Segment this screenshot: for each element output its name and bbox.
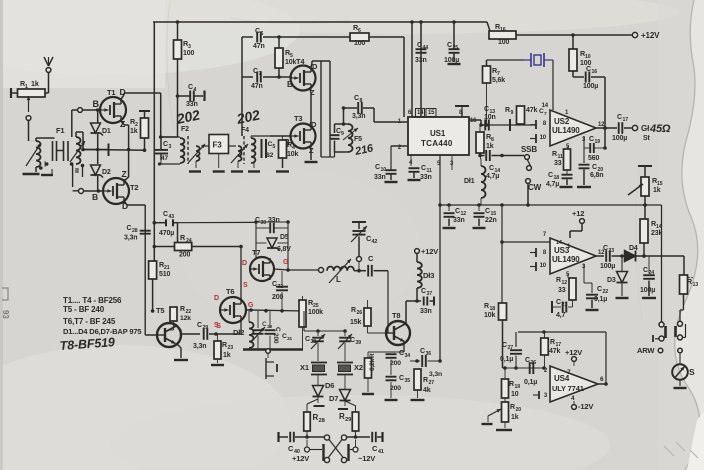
svg-text:F5: F5 <box>354 136 362 143</box>
svg-text:R: R <box>423 377 428 384</box>
svg-text:9: 9 <box>341 131 344 137</box>
svg-text:C: C <box>617 114 622 121</box>
svg-text:C: C <box>556 299 561 306</box>
svg-text:10: 10 <box>511 391 519 398</box>
svg-text:D1: D1 <box>102 128 111 135</box>
svg-text:28: 28 <box>132 228 138 234</box>
svg-text:B: B <box>93 99 100 109</box>
svg-text:T6,T7 - BF 245: T6,T7 - BF 245 <box>63 317 116 326</box>
svg-text:US1: US1 <box>430 129 446 138</box>
svg-text:5: 5 <box>273 144 276 150</box>
svg-text:100: 100 <box>498 39 509 46</box>
svg-text:30: 30 <box>261 220 267 226</box>
svg-text:C: C <box>447 42 452 49</box>
svg-text:33n: 33n <box>420 308 432 315</box>
svg-text:R: R <box>484 303 489 310</box>
svg-text:3,3n: 3,3n <box>429 371 442 378</box>
svg-text:9: 9 <box>511 110 514 116</box>
svg-text:1k: 1k <box>511 414 519 421</box>
svg-text:3,3n: 3,3n <box>124 235 137 242</box>
svg-text:L: L <box>336 275 341 284</box>
svg-text:I: I <box>51 167 53 176</box>
svg-text:12: 12 <box>562 280 568 286</box>
svg-text:5,6k: 5,6k <box>492 77 505 84</box>
svg-text:6: 6 <box>600 376 604 383</box>
svg-text:F1: F1 <box>56 126 64 135</box>
svg-text:~12V: ~12V <box>358 454 375 463</box>
svg-text:10: 10 <box>381 167 387 173</box>
svg-text:+12V: +12V <box>565 348 582 357</box>
svg-text:100µ: 100µ <box>612 135 627 142</box>
svg-text:R: R <box>222 342 227 349</box>
svg-text:33n: 33n <box>268 217 280 224</box>
svg-text:B: B <box>92 192 98 202</box>
svg-text:C: C <box>485 208 490 215</box>
svg-text:S: S <box>214 322 219 329</box>
svg-text:3: 3 <box>169 144 172 150</box>
svg-text:R: R <box>510 404 515 411</box>
svg-text:C: C <box>643 267 648 274</box>
svg-text:T4: T4 <box>296 57 305 66</box>
svg-text:T5: T5 <box>156 306 164 315</box>
svg-text:F3: F3 <box>213 141 223 150</box>
svg-text:4,7µ: 4,7µ <box>486 173 499 180</box>
svg-text:510: 510 <box>159 271 170 278</box>
svg-text:B: B <box>287 80 293 89</box>
svg-text:33n: 33n <box>374 174 386 181</box>
svg-text:33n: 33n <box>453 217 465 224</box>
svg-text:D4: D4 <box>629 245 638 252</box>
svg-text:3,3n: 3,3n <box>193 343 206 350</box>
svg-text:200: 200 <box>272 333 279 344</box>
svg-text:200: 200 <box>390 385 401 392</box>
svg-text:D: D <box>312 62 318 71</box>
svg-text:23k: 23k <box>651 230 662 237</box>
svg-text:93: 93 <box>1 310 10 319</box>
svg-text:T2: T2 <box>130 183 138 192</box>
svg-text:24: 24 <box>649 270 655 276</box>
svg-text:X2: X2 <box>354 363 363 372</box>
svg-text:C: C <box>417 42 422 49</box>
svg-text:+12: +12 <box>572 209 584 218</box>
svg-text:D5: D5 <box>280 234 289 241</box>
svg-text:T7: T7 <box>252 248 260 257</box>
svg-text:42: 42 <box>372 239 378 245</box>
svg-text:100: 100 <box>354 40 365 47</box>
svg-text:D7: D7 <box>329 394 338 403</box>
svg-text:4: 4 <box>571 395 575 402</box>
svg-text:13: 13 <box>693 282 699 288</box>
svg-text:16: 16 <box>592 69 598 75</box>
svg-text:37: 37 <box>427 291 433 297</box>
svg-text:16: 16 <box>470 118 477 124</box>
svg-text:C: C <box>548 172 553 179</box>
svg-text:TCA440: TCA440 <box>421 139 453 148</box>
svg-text:R: R <box>556 277 561 284</box>
svg-text:C: C <box>127 225 132 232</box>
svg-text:100k: 100k <box>308 309 323 316</box>
svg-text:15: 15 <box>428 110 435 116</box>
svg-text:T6: T6 <box>226 287 234 296</box>
svg-text:F2: F2 <box>181 126 189 133</box>
svg-text:22: 22 <box>603 289 609 295</box>
svg-text:Gł: Gł <box>641 124 650 133</box>
svg-text:10: 10 <box>540 135 547 141</box>
svg-text:100µ: 100µ <box>583 83 598 90</box>
svg-text:41: 41 <box>378 449 384 455</box>
svg-text:R: R <box>505 107 510 114</box>
svg-text:3,3n: 3,3n <box>352 113 365 120</box>
svg-text:560: 560 <box>588 155 599 162</box>
svg-text:T1: T1 <box>107 88 115 97</box>
svg-text:+12V: +12V <box>292 454 309 463</box>
svg-text:C: C <box>163 211 168 218</box>
svg-text:C: C <box>368 254 374 263</box>
svg-text:33n: 33n <box>415 57 427 64</box>
svg-text:26: 26 <box>531 360 537 366</box>
svg-text:D6: D6 <box>325 381 334 390</box>
svg-text:D1...D4 D6,D7-BAP 975: D1...D4 D6,D7-BAP 975 <box>63 327 141 336</box>
svg-text:Dł3: Dł3 <box>423 271 434 280</box>
svg-text:D: D <box>242 260 247 267</box>
svg-text:ULY 7741: ULY 7741 <box>552 384 584 393</box>
svg-text:ARW: ARW <box>637 346 655 355</box>
svg-text:R: R <box>369 353 376 358</box>
svg-text:C: C <box>350 337 355 344</box>
svg-text:6,8n: 6,8n <box>590 172 603 179</box>
svg-text:17: 17 <box>623 117 629 123</box>
svg-text:S: S <box>243 282 248 289</box>
svg-text:26: 26 <box>357 310 363 316</box>
svg-text:T8: T8 <box>392 311 400 320</box>
svg-text:C: C <box>455 208 460 215</box>
svg-text:33n: 33n <box>420 174 432 181</box>
svg-text:1k: 1k <box>486 143 494 150</box>
svg-text:6,2k: 6,2k <box>369 358 376 371</box>
svg-text:Dł1: Dł1 <box>464 178 475 185</box>
svg-text:C: C <box>502 342 507 349</box>
svg-text:SSB: SSB <box>521 145 537 154</box>
svg-text:10: 10 <box>540 263 547 269</box>
svg-text:27: 27 <box>429 380 435 386</box>
svg-text:200: 200 <box>179 252 190 259</box>
svg-text:0,1µ: 0,1µ <box>500 356 513 363</box>
svg-text:10k: 10k <box>287 151 298 158</box>
svg-text:C: C <box>188 84 193 91</box>
svg-text:47k: 47k <box>526 107 537 114</box>
svg-text:C: C <box>603 245 608 252</box>
svg-text:200: 200 <box>390 360 401 367</box>
svg-text:32: 32 <box>278 284 284 290</box>
svg-text:4k: 4k <box>423 387 431 394</box>
svg-text:R: R <box>351 307 356 314</box>
svg-text:C: C <box>399 350 404 357</box>
svg-text:47n: 47n <box>251 83 263 90</box>
svg-text:Dł2: Dł2 <box>233 328 244 337</box>
svg-text:+12V: +12V <box>641 31 660 40</box>
svg-text:10k: 10k <box>285 59 296 66</box>
svg-text:4,7: 4,7 <box>556 312 566 319</box>
svg-text:D: D <box>311 120 317 129</box>
svg-text:T5 - BF 240: T5 - BF 240 <box>63 305 105 314</box>
svg-text:19: 19 <box>595 139 601 145</box>
svg-text:45Ω: 45Ω <box>649 123 671 135</box>
svg-text:C: C <box>399 375 404 382</box>
svg-text:0,1µ: 0,1µ <box>524 379 537 386</box>
svg-text:1k: 1k <box>31 79 39 88</box>
svg-text:G: G <box>248 302 254 309</box>
svg-text:G: G <box>283 259 289 266</box>
svg-text:14: 14 <box>542 103 549 109</box>
svg-text:C: C <box>375 164 380 171</box>
svg-text:33: 33 <box>554 160 562 167</box>
svg-text:C: C <box>255 217 260 224</box>
svg-text:28: 28 <box>319 418 326 424</box>
svg-text:C: C <box>597 286 602 293</box>
svg-text:33: 33 <box>558 287 566 294</box>
svg-text:R: R <box>552 151 557 158</box>
svg-text:C: C <box>197 322 202 329</box>
svg-text:100µ: 100µ <box>600 263 615 270</box>
svg-text:C: C <box>489 165 494 172</box>
svg-text:47n: 47n <box>253 43 265 50</box>
svg-text:D: D <box>214 295 219 302</box>
svg-text:CW: CW <box>528 183 542 192</box>
svg-text:1k: 1k <box>223 352 231 359</box>
svg-text:C: C <box>354 95 359 102</box>
svg-text:34: 34 <box>405 353 411 359</box>
svg-text:D: D <box>120 87 126 97</box>
svg-text:0,1µ: 0,1µ <box>594 296 607 303</box>
svg-text:1k: 1k <box>130 128 138 135</box>
svg-text:6,8V: 6,8V <box>277 246 291 253</box>
svg-text:C: C <box>420 348 425 355</box>
svg-text:-12V: -12V <box>578 402 593 411</box>
svg-text:23: 23 <box>228 345 234 351</box>
svg-text:15k: 15k <box>350 319 361 326</box>
svg-text:St: St <box>643 135 651 142</box>
svg-text:UL1490: UL1490 <box>552 255 580 264</box>
svg-text:C: C <box>592 164 597 171</box>
svg-text:C: C <box>163 141 168 148</box>
svg-text:47k: 47k <box>549 348 560 355</box>
svg-text:UL1490: UL1490 <box>552 126 580 135</box>
svg-text:47: 47 <box>161 155 168 162</box>
svg-text:C: C <box>525 357 530 364</box>
svg-text:R: R <box>180 306 185 313</box>
svg-text:29: 29 <box>345 417 352 423</box>
svg-text:43: 43 <box>169 214 175 220</box>
svg-text:Z: Z <box>122 169 127 179</box>
svg-text:C: C <box>421 288 426 295</box>
svg-text:C: C <box>272 281 277 288</box>
svg-text:C: C <box>421 165 426 172</box>
svg-text:82: 82 <box>266 152 274 159</box>
svg-text:39: 39 <box>356 340 362 346</box>
svg-text:US4: US4 <box>554 374 570 383</box>
svg-text:R: R <box>687 279 692 286</box>
svg-text:12k: 12k <box>180 315 191 322</box>
svg-text:US3: US3 <box>554 246 570 255</box>
svg-text:C: C <box>274 327 281 332</box>
svg-text:36: 36 <box>426 351 432 357</box>
svg-text:C: C <box>305 336 310 343</box>
svg-text:T3: T3 <box>294 114 302 123</box>
svg-text:D2: D2 <box>102 169 111 176</box>
svg-text:20: 20 <box>516 407 522 413</box>
svg-text:+12V: +12V <box>421 247 438 256</box>
svg-text:23: 23 <box>609 248 615 254</box>
svg-text:R: R <box>509 381 514 388</box>
svg-text:1k: 1k <box>653 187 661 194</box>
svg-text:X1: X1 <box>300 363 309 372</box>
svg-text:D3: D3 <box>607 277 616 284</box>
svg-text:470µ: 470µ <box>159 230 174 237</box>
svg-text:S: S <box>689 367 695 377</box>
svg-text:21: 21 <box>562 302 568 308</box>
svg-text:C: C <box>589 136 594 143</box>
svg-text:R: R <box>550 339 555 346</box>
svg-text:22n: 22n <box>485 217 497 224</box>
svg-text:T1.... T4 - BF256: T1.... T4 - BF256 <box>63 296 122 305</box>
svg-text:US2: US2 <box>554 117 570 126</box>
svg-text:24: 24 <box>186 238 192 244</box>
svg-text:C: C <box>586 66 591 73</box>
svg-text:35: 35 <box>405 378 411 384</box>
svg-text:100µ: 100µ <box>640 287 655 294</box>
svg-text:31: 31 <box>287 336 293 342</box>
svg-text:4,7µ: 4,7µ <box>546 181 559 188</box>
svg-text:10k: 10k <box>484 312 495 319</box>
svg-text:II: II <box>75 166 79 175</box>
svg-text:38: 38 <box>311 339 317 345</box>
svg-text:19: 19 <box>515 384 521 390</box>
svg-text:100: 100 <box>183 50 194 57</box>
